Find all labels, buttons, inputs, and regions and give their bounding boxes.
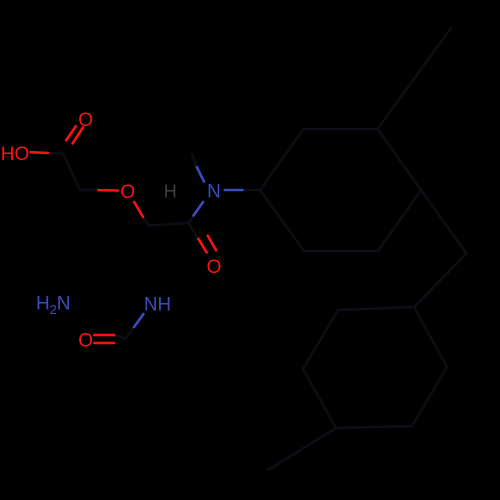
bond N10-C11 blue half [225,189,243,192]
wire ring B [303,307,447,428]
bond C9=O8 double red halves [94,334,114,337]
bond O4-C5 red half [134,202,143,217]
svg-text:N: N [207,181,221,202]
svg-text:O: O [207,257,222,278]
wire tail from ring B [268,428,336,470]
bond N12-C9 blue half [134,314,144,327]
wire dark carbon halves left molecule [48,153,99,190]
wire chain ring A to ring B [414,190,467,307]
bond N10 blue halves [134,167,242,327]
bond C2=O1 double red halves [66,126,76,140]
bond N10-C6 blue half [194,202,204,216]
wire ring A [260,129,421,251]
svg-text:H: H [164,182,177,202]
carbon skeleton right fragment: ring A [48,28,467,470]
bond C6=O7 double red halves [198,239,206,253]
bond HO-C2 red half [31,126,217,343]
svg-text:O: O [78,110,93,131]
wire N-ring dark half [242,189,260,192]
svg-text:NH: NH [144,295,171,316]
svg-text:O: O [78,330,93,351]
svg-text:HO: HO [1,144,30,165]
svg-text:O: O [120,182,135,203]
bond C3-O4 red half [99,189,118,192]
wire branch from ring A top [378,28,452,129]
bond N10-CH3 blue half [197,167,204,182]
